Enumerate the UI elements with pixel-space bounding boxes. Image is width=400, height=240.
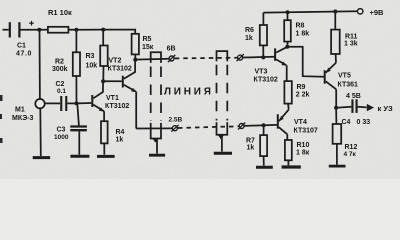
label C1 value 47.0 [16,43,32,58]
wire node E to VT2 base [103,80,122,82]
wire node C to R5 [103,30,135,34]
svg-text:R10: R10 [297,142,310,149]
svg-text:КТ3102: КТ3102 [108,66,132,73]
wire staple to ground [153,139,158,143]
svg-text:VT2: VT2 [109,57,122,64]
resistor R7 [260,123,267,165]
label R7 1k [246,137,255,151]
svg-text:R5: R5 [143,36,152,43]
capacitor C2 [45,96,77,111]
ground (C3) [70,155,89,158]
wire node H to VT5 base [287,47,324,77]
wire VT2 emitter to bottom line [136,127,172,129]
capacitor C1 [3,21,40,38]
label R8 1.8k [296,23,310,38]
resistor R11 [331,10,340,63]
svg-text:R3: R3 [86,53,95,60]
resistor R3 [100,30,108,82]
power rail +9V [263,11,357,12]
svg-text:1 3k: 1 3k [344,41,358,48]
dashed line boundary right [217,65,228,121]
svg-text:4 5В: 4 5В [346,93,361,100]
wire terminal to VT4 base [244,125,277,126]
svg-text:R8: R8 [296,23,305,30]
svg-text:C4: C4 [342,119,351,126]
label R2 300k [52,58,68,73]
svg-text:300k: 300k [52,66,68,73]
svg-text:R12: R12 [345,144,358,151]
label VT5 KT361 [338,72,359,88]
connector staple top-left [151,52,161,63]
edge scan marks [0,95,3,143]
wire staple to ground [218,135,224,140]
resistor R6 [260,13,267,58]
svg-text:2 2k: 2 2k [296,92,310,99]
label C3 1000 [54,126,69,140]
wire node A down to microphone [39,30,41,100]
ground (left staple) [149,154,165,157]
svg-text:C1: C1 [17,43,26,50]
resistor R5 [132,34,139,60]
svg-text:+9В: +9В [370,8,385,17]
svg-text:R6: R6 [245,27,254,34]
terminal top-left 6V [168,55,175,62]
label VT3 KT3102 [254,68,278,83]
resistor R4 [101,121,108,154]
resistor R9 [284,81,291,110]
svg-text:47.0: 47.0 [16,51,32,58]
resistor R2 [73,30,80,104]
svg-text:R2: R2 [55,58,64,65]
output arrow to amplifier [367,104,374,111]
resistor R12 [333,108,342,165]
svg-text:R1 10к: R1 10к [48,8,72,17]
label VT2 KT3102 [108,57,132,72]
svg-text:VT1: VT1 [106,95,119,102]
dashed line boundary left [151,67,161,122]
svg-text:КТ3107: КТ3107 [294,128,318,135]
label C2 0.1 [56,81,67,95]
wire dashed line bottom [178,126,239,128]
ground (right staple) [214,152,232,155]
ground (M1) [33,156,50,159]
capacitor C4 [336,99,366,113]
svg-text:R11: R11 [345,33,358,40]
label R3 10k [86,53,98,70]
svg-text:1k: 1k [245,35,253,42]
label VT1 KT3102 [105,95,129,110]
svg-text:2.5В: 2.5В [169,117,183,124]
label R5 15k [142,36,154,51]
svg-text:1000: 1000 [54,134,69,141]
node A junction C1/R1/M1 [37,28,41,32]
svg-text:R4: R4 [116,129,125,136]
svg-text:к УЗ: к УЗ [378,104,394,113]
label M1 MKE-3 [12,106,34,122]
svg-text:10k: 10k [86,63,98,70]
ground (R10) [282,165,301,168]
wire terminal to VT3 base [243,56,275,59]
svg-text:6В: 6В [167,46,176,53]
transistor VT1 [91,81,104,121]
svg-text:15к: 15к [142,44,154,51]
svg-text:4 7к: 4 7к [344,151,357,158]
svg-text:0 33: 0 33 [357,119,371,126]
wire node D to VT1 base [77,102,92,104]
label R6 1k [245,27,254,42]
svg-text:VT5: VT5 [338,72,351,79]
transistor VT2 [122,60,136,129]
capacitor C3 [70,103,87,154]
svg-text:1k: 1k [116,137,124,144]
label R11 1.3k [344,33,358,47]
wire node B to node C [76,29,103,31]
svg-text:VT4: VT4 [294,119,307,126]
resistor R1 [39,27,76,33]
svg-text:0.1: 0.1 [57,88,66,95]
resistor R10 [285,140,292,165]
label R9 2.2k [296,84,310,99]
node G junction R6/VT3 base [261,55,265,59]
svg-text:C3: C3 [57,126,66,133]
resistor R8 [284,10,291,47]
terminal bottom-right [238,123,245,130]
svg-text:C2: C2 [56,81,65,88]
node C junction R3 [101,28,105,32]
terminal top-right [237,54,244,61]
node F junction R5/VT2 collector/line [133,58,137,62]
svg-text:1k: 1k [247,144,255,151]
node E junction R3/VT1 collector/VT2 base [101,79,105,83]
transistor VT5 [324,63,337,108]
svg-text:1 8к: 1 8к [296,149,310,156]
ground (R4) [97,155,115,158]
microphone M1 [35,99,44,108]
ground (R12) [329,165,346,168]
ground (R7) [256,166,273,169]
node H junction VT3 collector/R8 [285,45,289,49]
wire node F to terminal [135,58,169,61]
label VT4 KT3107 [294,119,318,135]
connector staple bottom-right [217,122,228,134]
svg-text:МКЭ-3: МКЭ-3 [12,115,34,122]
svg-text:КТ3102: КТ3102 [105,103,129,110]
terminal bottom-left 2.5V [171,125,178,132]
label R12 4.7k [344,144,358,158]
svg-text:Л И Н И Я: Л И Н И Я [164,87,211,98]
label R4 1k [116,129,125,144]
label C4 0.33 [342,119,371,126]
wire dashed line top [175,57,237,60]
transistor VT4 [277,110,289,141]
svg-text:R9: R9 [297,84,306,91]
svg-text:1 8k: 1 8k [296,30,310,37]
terminal +9V [358,9,363,14]
svg-text:КТ3102: КТ3102 [254,77,278,84]
node D junction C2/R2/C3/VT1 base [75,101,79,105]
svg-text:VT3: VT3 [255,68,268,75]
connector staple top-right [217,51,228,61]
transistor VT3 [274,47,287,81]
connector staple bottom-left [151,123,161,139]
label R10 1.8k [296,142,310,156]
wire M1 to ground [39,108,42,156]
svg-text:КТ361: КТ361 [338,81,359,88]
svg-text:М1: М1 [15,106,25,113]
node J output junction VT5/C4/R12 [334,106,338,110]
node B junction R1/R2 [74,28,78,32]
